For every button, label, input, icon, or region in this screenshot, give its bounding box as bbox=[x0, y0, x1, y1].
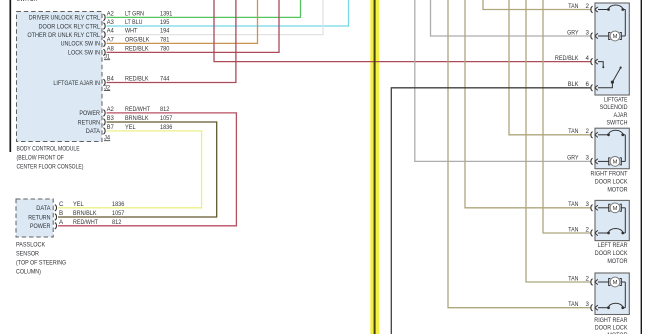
svg-text:3: 3 bbox=[586, 301, 590, 308]
svg-text:781: 781 bbox=[160, 37, 170, 44]
svg-text:SWITCH: SWITCH bbox=[607, 120, 628, 127]
svg-text:780: 780 bbox=[160, 46, 170, 53]
svg-text:1836: 1836 bbox=[112, 201, 125, 208]
svg-text:RETURN: RETURN bbox=[78, 119, 100, 126]
svg-text:SWITCH: SWITCH bbox=[17, 0, 38, 3]
svg-text:TAN: TAN bbox=[568, 3, 578, 10]
svg-text:RED/WHT: RED/WHT bbox=[125, 106, 150, 113]
svg-text:DRIVER UNLOCK RLY CTRL: DRIVER UNLOCK RLY CTRL bbox=[29, 15, 101, 22]
svg-text:A8: A8 bbox=[107, 46, 115, 53]
svg-text:M: M bbox=[613, 206, 618, 212]
svg-text:COLUMN): COLUMN) bbox=[16, 269, 41, 276]
svg-text:DOOR LOCK RLY CTRL: DOOR LOCK RLY CTRL bbox=[39, 23, 101, 30]
svg-text:2: 2 bbox=[586, 128, 590, 135]
svg-text:A2: A2 bbox=[107, 106, 115, 113]
svg-text:812: 812 bbox=[160, 106, 170, 113]
svg-text:4: 4 bbox=[586, 55, 590, 62]
svg-text:1057: 1057 bbox=[160, 115, 173, 122]
svg-text:1057: 1057 bbox=[112, 210, 125, 217]
svg-text:OTHER DR UNLK RLY CTRL: OTHER DR UNLK RLY CTRL bbox=[27, 32, 100, 39]
svg-text:B3: B3 bbox=[107, 115, 115, 122]
svg-text:TAN: TAN bbox=[568, 275, 578, 282]
svg-text:DOOR LOCK: DOOR LOCK bbox=[595, 178, 628, 185]
svg-text:RED/BLK: RED/BLK bbox=[125, 76, 149, 83]
svg-text:B4: B4 bbox=[107, 76, 115, 83]
svg-text:DOOR LOCK: DOOR LOCK bbox=[595, 250, 628, 257]
svg-text:LT BLU: LT BLU bbox=[125, 19, 143, 26]
svg-text:A7: A7 bbox=[107, 37, 115, 44]
svg-text:RED/BLK: RED/BLK bbox=[555, 55, 579, 62]
svg-text:BRN/BLK: BRN/BLK bbox=[73, 210, 97, 217]
svg-text:TAN: TAN bbox=[568, 301, 578, 308]
svg-text:195: 195 bbox=[160, 19, 170, 26]
svg-text:ORG/BLK: ORG/BLK bbox=[125, 37, 150, 44]
svg-text:744: 744 bbox=[160, 76, 170, 83]
svg-text:3: 3 bbox=[586, 29, 590, 36]
svg-text:UNLOCK SW IN: UNLOCK SW IN bbox=[61, 41, 100, 48]
svg-text:TAN: TAN bbox=[568, 226, 578, 233]
svg-text:1391: 1391 bbox=[160, 11, 173, 18]
svg-text:A3: A3 bbox=[107, 19, 115, 26]
svg-text:2: 2 bbox=[586, 226, 590, 233]
svg-text:C: C bbox=[59, 201, 64, 208]
svg-text:(TOP OF STEERING: (TOP OF STEERING bbox=[16, 260, 66, 267]
svg-text:2: 2 bbox=[586, 3, 590, 10]
svg-text:LEFT REAR: LEFT REAR bbox=[598, 242, 628, 249]
svg-text:RED/WHT: RED/WHT bbox=[73, 219, 98, 226]
svg-text:BRN/BLK: BRN/BLK bbox=[125, 115, 149, 122]
svg-text:LIFTGATE AJAR IN: LIFTGATE AJAR IN bbox=[53, 80, 100, 87]
svg-text:(BELOW FRONT OF: (BELOW FRONT OF bbox=[17, 155, 64, 162]
svg-text:CENTER FLOOR CONSOLE): CENTER FLOOR CONSOLE) bbox=[17, 164, 84, 171]
svg-text:MOTOR: MOTOR bbox=[607, 186, 628, 193]
svg-text:M: M bbox=[613, 160, 618, 166]
svg-text:SENSOR: SENSOR bbox=[16, 251, 39, 258]
svg-text:DOOR LOCK: DOOR LOCK bbox=[595, 324, 628, 331]
svg-text:RED/BLK: RED/BLK bbox=[125, 46, 149, 53]
svg-text:RIGHT REAR: RIGHT REAR bbox=[594, 317, 628, 324]
svg-text:POWER: POWER bbox=[79, 110, 100, 117]
svg-text:POWER: POWER bbox=[30, 223, 51, 230]
svg-text:194: 194 bbox=[160, 28, 170, 35]
svg-text:WHT: WHT bbox=[125, 28, 137, 35]
svg-text:TAN: TAN bbox=[568, 201, 578, 208]
svg-text:GRY: GRY bbox=[567, 155, 578, 162]
svg-text:3: 3 bbox=[586, 155, 590, 162]
svg-text:B: B bbox=[59, 210, 63, 217]
svg-text:6: 6 bbox=[586, 81, 590, 88]
svg-text:BLK: BLK bbox=[568, 81, 580, 88]
svg-text:TAN: TAN bbox=[568, 128, 578, 135]
svg-text:DATA: DATA bbox=[86, 128, 101, 135]
svg-text:A4: A4 bbox=[107, 28, 115, 35]
svg-text:M: M bbox=[613, 34, 618, 40]
svg-text:A2: A2 bbox=[107, 11, 115, 18]
svg-text:2: 2 bbox=[586, 275, 590, 282]
svg-text:LT GRN: LT GRN bbox=[125, 11, 144, 18]
svg-text:LIFTGATE: LIFTGATE bbox=[604, 96, 628, 103]
svg-text:DATA: DATA bbox=[36, 205, 51, 212]
svg-text:BODY CONTROL MODULE: BODY CONTROL MODULE bbox=[17, 146, 80, 153]
svg-text:RETURN: RETURN bbox=[28, 214, 50, 221]
svg-text:M: M bbox=[613, 280, 618, 286]
svg-text:GRY: GRY bbox=[567, 29, 578, 36]
svg-text:MOTOR: MOTOR bbox=[607, 258, 628, 265]
svg-text:YEL: YEL bbox=[125, 124, 136, 131]
svg-text:LOCK SW IN: LOCK SW IN bbox=[68, 50, 100, 57]
svg-text:AJAR: AJAR bbox=[614, 112, 628, 119]
svg-text:3: 3 bbox=[586, 201, 590, 208]
svg-text:812: 812 bbox=[112, 219, 122, 226]
svg-text:YEL: YEL bbox=[73, 201, 84, 208]
svg-text:RIGHT FRONT: RIGHT FRONT bbox=[591, 170, 628, 177]
svg-text:SOLENOID: SOLENOID bbox=[600, 104, 628, 111]
svg-text:B7: B7 bbox=[107, 124, 115, 131]
svg-text:PASSLOCK: PASSLOCK bbox=[16, 242, 46, 249]
svg-text:1836: 1836 bbox=[160, 124, 173, 131]
